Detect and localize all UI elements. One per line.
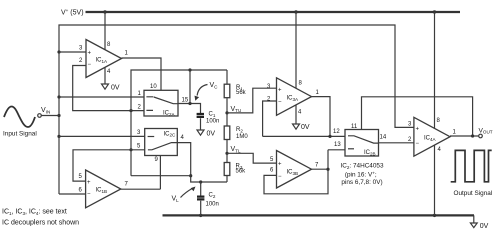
svg-text:−: − bbox=[87, 192, 91, 198]
svg-text:0V: 0V bbox=[207, 131, 216, 138]
svg-text:IC3B: IC3B bbox=[287, 170, 299, 176]
svg-text:IC decouplers not shown: IC decouplers not shown bbox=[2, 220, 79, 227]
svg-text:12: 12 bbox=[333, 129, 340, 135]
svg-text:pins 6,7,8: 0V): pins 6,7,8: 0V) bbox=[341, 179, 382, 186]
svg-text:+: + bbox=[278, 162, 282, 168]
svg-text:100n: 100n bbox=[206, 202, 219, 208]
svg-text:−: − bbox=[88, 62, 92, 68]
svg-text:0V: 0V bbox=[480, 223, 489, 230]
svg-text:1M0: 1M0 bbox=[236, 134, 248, 140]
svg-text:+: + bbox=[278, 88, 282, 94]
svg-text:0V: 0V bbox=[301, 124, 310, 131]
svg-text:11: 11 bbox=[351, 124, 358, 130]
svg-text:15: 15 bbox=[182, 98, 189, 104]
svg-text:IC3A: IC3A bbox=[287, 96, 300, 102]
svg-text:(pin 16: V+;: (pin 16: V+; bbox=[345, 170, 377, 178]
svg-text:IC2A: IC2A bbox=[163, 111, 176, 117]
svg-text:IC1B: IC1B bbox=[96, 188, 108, 194]
svg-text:Output Signal: Output Signal bbox=[454, 190, 493, 197]
svg-text:IC4A: IC4A bbox=[424, 136, 437, 142]
svg-text:56k: 56k bbox=[236, 90, 247, 96]
svg-text:100n: 100n bbox=[206, 119, 219, 125]
svg-text:V+ (5V): V+ (5V) bbox=[61, 8, 84, 16]
svg-text:0V: 0V bbox=[111, 84, 120, 91]
svg-text:−: − bbox=[278, 100, 282, 106]
svg-text:+: + bbox=[87, 180, 91, 186]
svg-text:−: − bbox=[278, 174, 282, 180]
svg-text:C1: C1 bbox=[209, 112, 216, 118]
svg-text:C2: C2 bbox=[209, 193, 216, 199]
svg-text:+: + bbox=[416, 127, 420, 133]
svg-text:−: − bbox=[416, 141, 420, 147]
svg-text:Input Signal: Input Signal bbox=[3, 130, 37, 137]
svg-text:13: 13 bbox=[334, 142, 341, 148]
svg-text:IC2B: IC2B bbox=[364, 150, 376, 156]
svg-text:56k: 56k bbox=[236, 169, 247, 175]
svg-text:+: + bbox=[88, 51, 92, 57]
svg-text:IC2C: IC2C bbox=[164, 131, 177, 137]
svg-text:IC1A: IC1A bbox=[96, 58, 109, 64]
svg-text:14: 14 bbox=[380, 134, 387, 140]
svg-text:IC1, IC3, IC4: see text: IC1, IC3, IC4: see text bbox=[2, 209, 67, 216]
svg-text:R2: R2 bbox=[236, 127, 243, 133]
svg-text:10: 10 bbox=[150, 84, 157, 90]
